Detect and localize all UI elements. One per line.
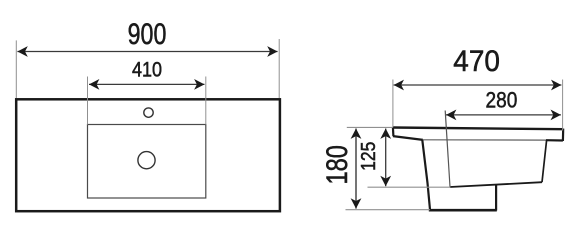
basin underside: [450, 182, 542, 187]
top extension line (rim top level, left of view): [347, 126, 393, 128]
drain hole: [138, 152, 155, 169]
pedestal bottom: [429, 209, 497, 212]
basin left wall and pedestal left edge: [422, 140, 430, 210]
countertop outline: [16, 99, 280, 211]
extension line 410 left: [87, 77, 89, 125]
dimension line 410: [89, 79, 205, 90]
rim underside left slant: [393, 136, 423, 140]
dimension line 470: [394, 80, 562, 91]
dimension line 125: [380, 129, 391, 187]
faucet hole: [144, 108, 153, 117]
extension line 470 left: [392, 80, 394, 128]
svg-text:900: 900: [128, 18, 167, 51]
extension line 410 right: [205, 77, 207, 125]
svg-text:180: 180: [321, 145, 354, 184]
basin rectangle: [88, 125, 206, 199]
rim band top edge: [393, 128, 563, 130]
svg-text:470: 470: [453, 45, 500, 78]
bottom extension line (pedestal bottom level): [346, 209, 431, 211]
rim underside middle (thin): [423, 139, 548, 141]
pedestal right wall: [495, 184, 497, 210]
bowl inner wall / 280 left extension: [445, 111, 450, 188]
rim underside right segment: [546, 139, 563, 142]
dimension line 280: [446, 110, 561, 121]
extension line 900 right: [278, 39, 280, 98]
rim right end cap: [562, 129, 564, 141]
svg-text:125: 125: [358, 142, 380, 171]
extension line 900 left: [15, 40, 17, 98]
rim left end cap: [392, 127, 395, 136]
basin right wall: [542, 140, 547, 182]
svg-text:280: 280: [486, 88, 518, 113]
svg-text:410: 410: [132, 56, 162, 81]
dimension line 900: [17, 46, 277, 57]
mid extension line (basin underside level): [368, 186, 451, 188]
dimension line 180: [351, 129, 362, 209]
extension line 470/280 right: [562, 80, 564, 131]
